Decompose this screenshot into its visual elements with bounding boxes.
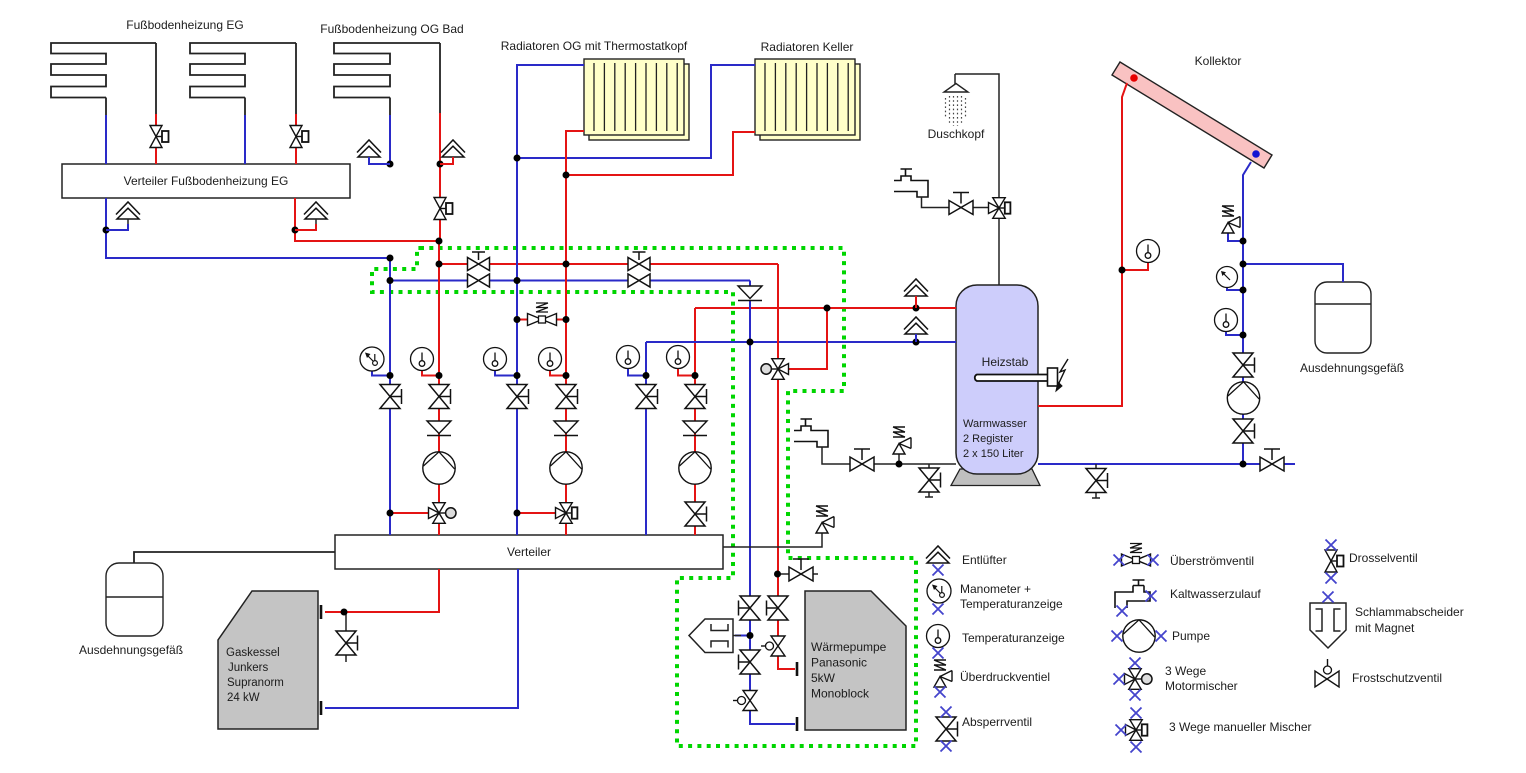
- shutoff valve group1 blue: [380, 385, 402, 409]
- check valve heat pump riser: [738, 286, 762, 301]
- svg-text:Drosselventil: Drosselventil: [1349, 551, 1418, 565]
- floor heating coil 1 Fussbodenheizung EG: [51, 43, 156, 98]
- svg-text:mit Magnet: mit Magnet: [1355, 621, 1415, 635]
- wire solar thermometer elbow: [1122, 262, 1148, 271]
- svg-text:Panasonic: Panasonic: [811, 656, 867, 670]
- wire radiator OG blue supply: [517, 65, 584, 535]
- gravity brake group2: [554, 421, 578, 436]
- wire blue return bus y280: [390, 258, 750, 281]
- solar thermometer: [1215, 309, 1238, 332]
- shower mixer to tank pipe: [998, 219, 1000, 285]
- wire gauge6 elbow: [678, 369, 695, 376]
- bypass valve pair A upper: [468, 252, 490, 271]
- svg-text:Temperaturanzeige: Temperaturanzeige: [962, 631, 1065, 645]
- throttle valve coil1: [150, 126, 169, 148]
- legend pump symbol: [1123, 620, 1155, 652]
- wire mixer2 feed stub: [517, 512, 555, 514]
- green dotted boundary heat-pump circuit: [372, 248, 916, 746]
- wire heat pump fill valve stub: [778, 573, 818, 575]
- cold water valve: [850, 449, 874, 471]
- legend frost valve symbol: [1315, 659, 1339, 687]
- storage tank Warmwasser: [956, 285, 1038, 474]
- tank drain valve: [1086, 469, 1108, 493]
- wire tank blue bottom bus: [1038, 463, 1295, 465]
- shower top pipe: [955, 74, 999, 197]
- gravity brake group1: [427, 421, 451, 436]
- solar collector Kollektor: [1112, 62, 1272, 168]
- radiator OG mit Thermostatkopf: [584, 59, 684, 135]
- wire radiator Keller red return: [566, 132, 755, 175]
- tank bottom fill valve: [1260, 449, 1284, 471]
- heat pump port red: [796, 662, 799, 676]
- lightning symbol electric: [1058, 359, 1068, 385]
- svg-text:Verteiler: Verteiler: [507, 545, 551, 559]
- wire cold water drain valve stub: [925, 464, 933, 497]
- legend motor mixer symbol: [1125, 669, 1153, 690]
- tap shower outlet pipe: [922, 197, 989, 208]
- svg-text:Monoblock: Monoblock: [811, 687, 870, 701]
- legend thermometer symbol: [927, 625, 950, 648]
- bypass valve pair B lower: [628, 274, 650, 287]
- tap cold water Kaltwasserzulauf: [794, 419, 828, 447]
- wire heat pump red riser: [777, 264, 779, 597]
- svg-text:Heizstab: Heizstab: [982, 355, 1029, 369]
- storage tank base: [951, 469, 1040, 486]
- wire EG manifold blue return bus: [106, 198, 390, 258]
- shutoff valve group3 red: [685, 385, 707, 409]
- frost protection valve red: [761, 636, 785, 656]
- svg-text:Wärmepumpe: Wärmepumpe: [811, 640, 887, 654]
- throttle valve coil3: [434, 198, 453, 220]
- wire solar red riser: [1038, 83, 1127, 406]
- air vent E1: [116, 202, 140, 219]
- legend relief valve symbol: [934, 660, 952, 687]
- wire mixer3 to tank bus: [789, 308, 827, 369]
- wire solar thermometer2 elbow: [1226, 331, 1243, 336]
- radiator Keller shadow: [760, 64, 860, 140]
- cold water drain valve: [919, 468, 941, 492]
- shutoff valve group3 lower: [685, 502, 707, 526]
- bypass valve pair B upper: [628, 252, 650, 271]
- gauge manometer-thermo group1: [360, 347, 384, 371]
- svg-text:Radiatoren Keller: Radiatoren Keller: [761, 40, 854, 54]
- svg-text:Frostschutzventil: Frostschutzventil: [1352, 671, 1442, 685]
- wire boiler blue from manifold: [325, 569, 518, 708]
- wire blue column group1: [389, 281, 391, 536]
- air vent E5: [904, 279, 928, 296]
- wire coil1 blue return: [105, 98, 107, 116]
- wire cold water relief stub: [898, 454, 900, 464]
- svg-text:Überströmventil: Überströmventil: [1170, 554, 1254, 568]
- wire coil3 black supply: [439, 43, 441, 113]
- manifold safety valve Ueberdruckventil: [816, 506, 834, 533]
- legend throttle valve symbol: [1325, 550, 1344, 572]
- wire blue tank return bus y342: [646, 341, 956, 343]
- wire coil3 red supply: [439, 113, 441, 241]
- svg-text:24 kW: 24 kW: [227, 692, 260, 704]
- legend manual mixer symbol: [1126, 720, 1148, 741]
- overflow valve Ueberstroemventil: [528, 303, 557, 326]
- svg-text:2 x 150 Liter: 2 x 150 Liter: [963, 448, 1024, 460]
- air vent E6: [904, 317, 928, 334]
- three way manual mixer M2: [556, 503, 578, 524]
- pump P2: [550, 452, 582, 484]
- legend air vent symbol: [926, 546, 950, 563]
- svg-text:Schlammabscheider: Schlammabscheider: [1355, 605, 1464, 619]
- boiler port red: [320, 605, 323, 619]
- radiator OG shadow: [589, 64, 689, 140]
- gas boiler Gaskessel: [218, 591, 318, 729]
- svg-text:Überdruckventiel: Überdruckventiel: [960, 670, 1050, 684]
- boiler drain valve: [336, 631, 358, 655]
- svg-text:Supranorm: Supranorm: [227, 677, 284, 689]
- pump P1: [423, 452, 455, 484]
- heat pump shutoff valve blue: [739, 596, 761, 620]
- wire safety valve manifold: [723, 533, 822, 547]
- wire boiler drain stub: [345, 612, 347, 662]
- wire radiator Keller blue supply: [517, 65, 755, 158]
- svg-text:3 Wege: 3 Wege: [1165, 664, 1206, 678]
- svg-text:Warmwasser: Warmwasser: [963, 418, 1027, 430]
- gauge thermometer group3 red: [667, 346, 690, 369]
- wire coil2 blue return: [244, 98, 246, 116]
- gauge thermometer group3 blue: [617, 346, 640, 369]
- shutoff valve group3 blue: [636, 385, 658, 409]
- pump P3: [679, 452, 711, 484]
- radiator Keller: [755, 59, 855, 135]
- air vent E3: [357, 140, 381, 157]
- gauge thermometer group2 blue: [484, 348, 507, 371]
- three way motor mixer heat pump: [761, 359, 789, 380]
- wire solar blue pump section: [1242, 377, 1244, 465]
- legend tap symbol: [1115, 580, 1150, 608]
- wire EG manifold red supply bus: [295, 198, 439, 241]
- distribution manifold Verteiler: [335, 535, 723, 569]
- svg-text:Junkers: Junkers: [228, 662, 269, 674]
- svg-text:Ausdehnungsgefäß: Ausdehnungsgefäß: [79, 643, 183, 657]
- wire solar relief stub: [1228, 233, 1243, 241]
- svg-text:Duschkopf: Duschkopf: [928, 127, 985, 141]
- wire tank drain valve stub: [1092, 464, 1100, 498]
- wire red column group3: [694, 308, 696, 535]
- solar shutoff valve upper: [1233, 353, 1255, 377]
- wire solar manometer elbow: [1227, 288, 1243, 290]
- shutoff valve group2 blue: [507, 385, 529, 409]
- heat pump lower shutoff valve blue: [739, 650, 761, 674]
- wire coil1 red supply: [155, 114, 157, 164]
- wire radiator OG red return: [566, 131, 584, 535]
- svg-text:Fußbodenheizung EG: Fußbodenheizung EG: [126, 18, 243, 32]
- legend manometer symbol: [927, 579, 951, 603]
- svg-text:Kaltwasserzulauf: Kaltwasserzulauf: [1170, 587, 1261, 601]
- legend shutoff valve symbol: [936, 717, 958, 741]
- shower head Duschkopf: [944, 74, 968, 92]
- air vent E4: [441, 140, 465, 157]
- wire red supply bus y264: [439, 241, 778, 264]
- distribution manifold Verteiler Fussbodenheizung EG: [62, 164, 350, 198]
- wire mixer1 feed stub: [390, 512, 428, 514]
- expansion vessel right Ausdehnungsgefaess: [1315, 282, 1371, 353]
- floor heating coil 3 Fussbodenheizung OG Bad: [334, 43, 440, 98]
- svg-text:Motormischer: Motormischer: [1165, 679, 1238, 693]
- heating rod Heizstab: [975, 368, 1058, 386]
- wire red tank supply bus y308: [695, 307, 956, 309]
- wire gauge3 elbow: [495, 371, 517, 376]
- wire solar blue downcomer: [1243, 162, 1251, 354]
- legend sludge separator symbol: [1310, 603, 1346, 648]
- wire heat pump blue riser: [749, 281, 751, 598]
- svg-text:Gaskessel: Gaskessel: [226, 647, 280, 659]
- solar thermometer tank side: [1137, 240, 1160, 263]
- svg-text:Pumpe: Pumpe: [1172, 629, 1210, 643]
- wire heat pump red lower: [778, 619, 795, 669]
- svg-text:Radiatoren OG mit Thermostatko: Radiatoren OG mit Thermostatkopf: [501, 39, 688, 53]
- wire ueberstroem stubs: [517, 319, 566, 321]
- tap shower warm water: [894, 169, 928, 197]
- cold water relief valve Ueberdruckventil: [893, 427, 911, 454]
- heat pump Waermepumpe: [805, 591, 906, 730]
- svg-text:Kollektor: Kollektor: [1195, 54, 1242, 68]
- wire red column group1: [438, 264, 440, 535]
- shutoff valve group1 red: [429, 385, 451, 409]
- heat pump port blue: [796, 717, 799, 731]
- solar shutoff valve lower: [1233, 419, 1255, 443]
- svg-text:Entlüfter: Entlüfter: [962, 553, 1007, 567]
- expansion vessel pipe to manifold: [134, 552, 335, 563]
- svg-text:Absperrventil: Absperrventil: [962, 715, 1032, 729]
- cold water pipe to tank: [822, 447, 956, 464]
- solar pump: [1227, 382, 1259, 414]
- svg-text:3 Wege manueller Mischer: 3 Wege manueller Mischer: [1169, 720, 1312, 734]
- solar manometer: [1217, 267, 1238, 288]
- svg-text:2 Register: 2 Register: [963, 433, 1013, 445]
- expansion vessel pipe to solar line: [1243, 264, 1343, 282]
- shower spray dots: [946, 96, 966, 126]
- legend overflow valve symbol: [1122, 544, 1151, 567]
- wire heat pump blue lower: [750, 619, 795, 724]
- air vent E2: [304, 202, 328, 219]
- expansion vessel left Ausdehnungsgefaess: [106, 563, 163, 636]
- shutoff valve group2 red: [556, 385, 578, 409]
- solar relief valve Ueberdruckventil: [1222, 206, 1240, 233]
- shower mixer manual: [989, 198, 1011, 219]
- three way motor mixer M1: [429, 503, 457, 524]
- gravity brake group3: [683, 421, 707, 436]
- svg-text:Verteiler Fußbodenheizung EG: Verteiler Fußbodenheizung EG: [124, 174, 289, 188]
- wire gauge4 elbow: [550, 371, 566, 376]
- wire coil2 black supply: [295, 43, 297, 114]
- throttle valve coil2: [290, 126, 309, 148]
- svg-text:Manometer +: Manometer +: [960, 582, 1031, 596]
- gauge thermometer group2 red: [539, 348, 562, 371]
- floor heating coil 2 Fussbodenheizung EG: [190, 43, 296, 98]
- boiler port blue: [320, 701, 323, 715]
- svg-text:Temperaturanzeige: Temperaturanzeige: [960, 597, 1063, 611]
- bypass valve pair A lower: [468, 274, 490, 287]
- wire coil2 red supply: [295, 114, 297, 164]
- svg-text:5kW: 5kW: [811, 671, 836, 685]
- heat pump fill valve: [789, 559, 813, 581]
- sludge separator Schlammabscheider: [689, 619, 741, 653]
- frost protection valve blue: [733, 691, 757, 711]
- wire sludge separator stub: [735, 635, 750, 637]
- heat pump shutoff valve red: [767, 596, 789, 620]
- wire gauge1 elbow: [372, 372, 390, 376]
- svg-text:Ausdehnungsgefäß: Ausdehnungsgefäß: [1300, 361, 1404, 375]
- wire gauge5 elbow: [628, 369, 646, 376]
- gauge thermometer group1: [411, 348, 434, 371]
- wire coil1 black supply: [155, 43, 157, 114]
- shower line valve: [949, 193, 973, 215]
- wire coil3 blue return: [389, 98, 391, 116]
- wire boiler red to manifold: [325, 569, 439, 612]
- wire gauge2 elbow: [422, 371, 439, 376]
- svg-text:Fußbodenheizung OG Bad: Fußbodenheizung OG Bad: [320, 22, 463, 36]
- lightning arrowhead: [1056, 382, 1062, 391]
- wire blue column group3: [645, 342, 647, 535]
